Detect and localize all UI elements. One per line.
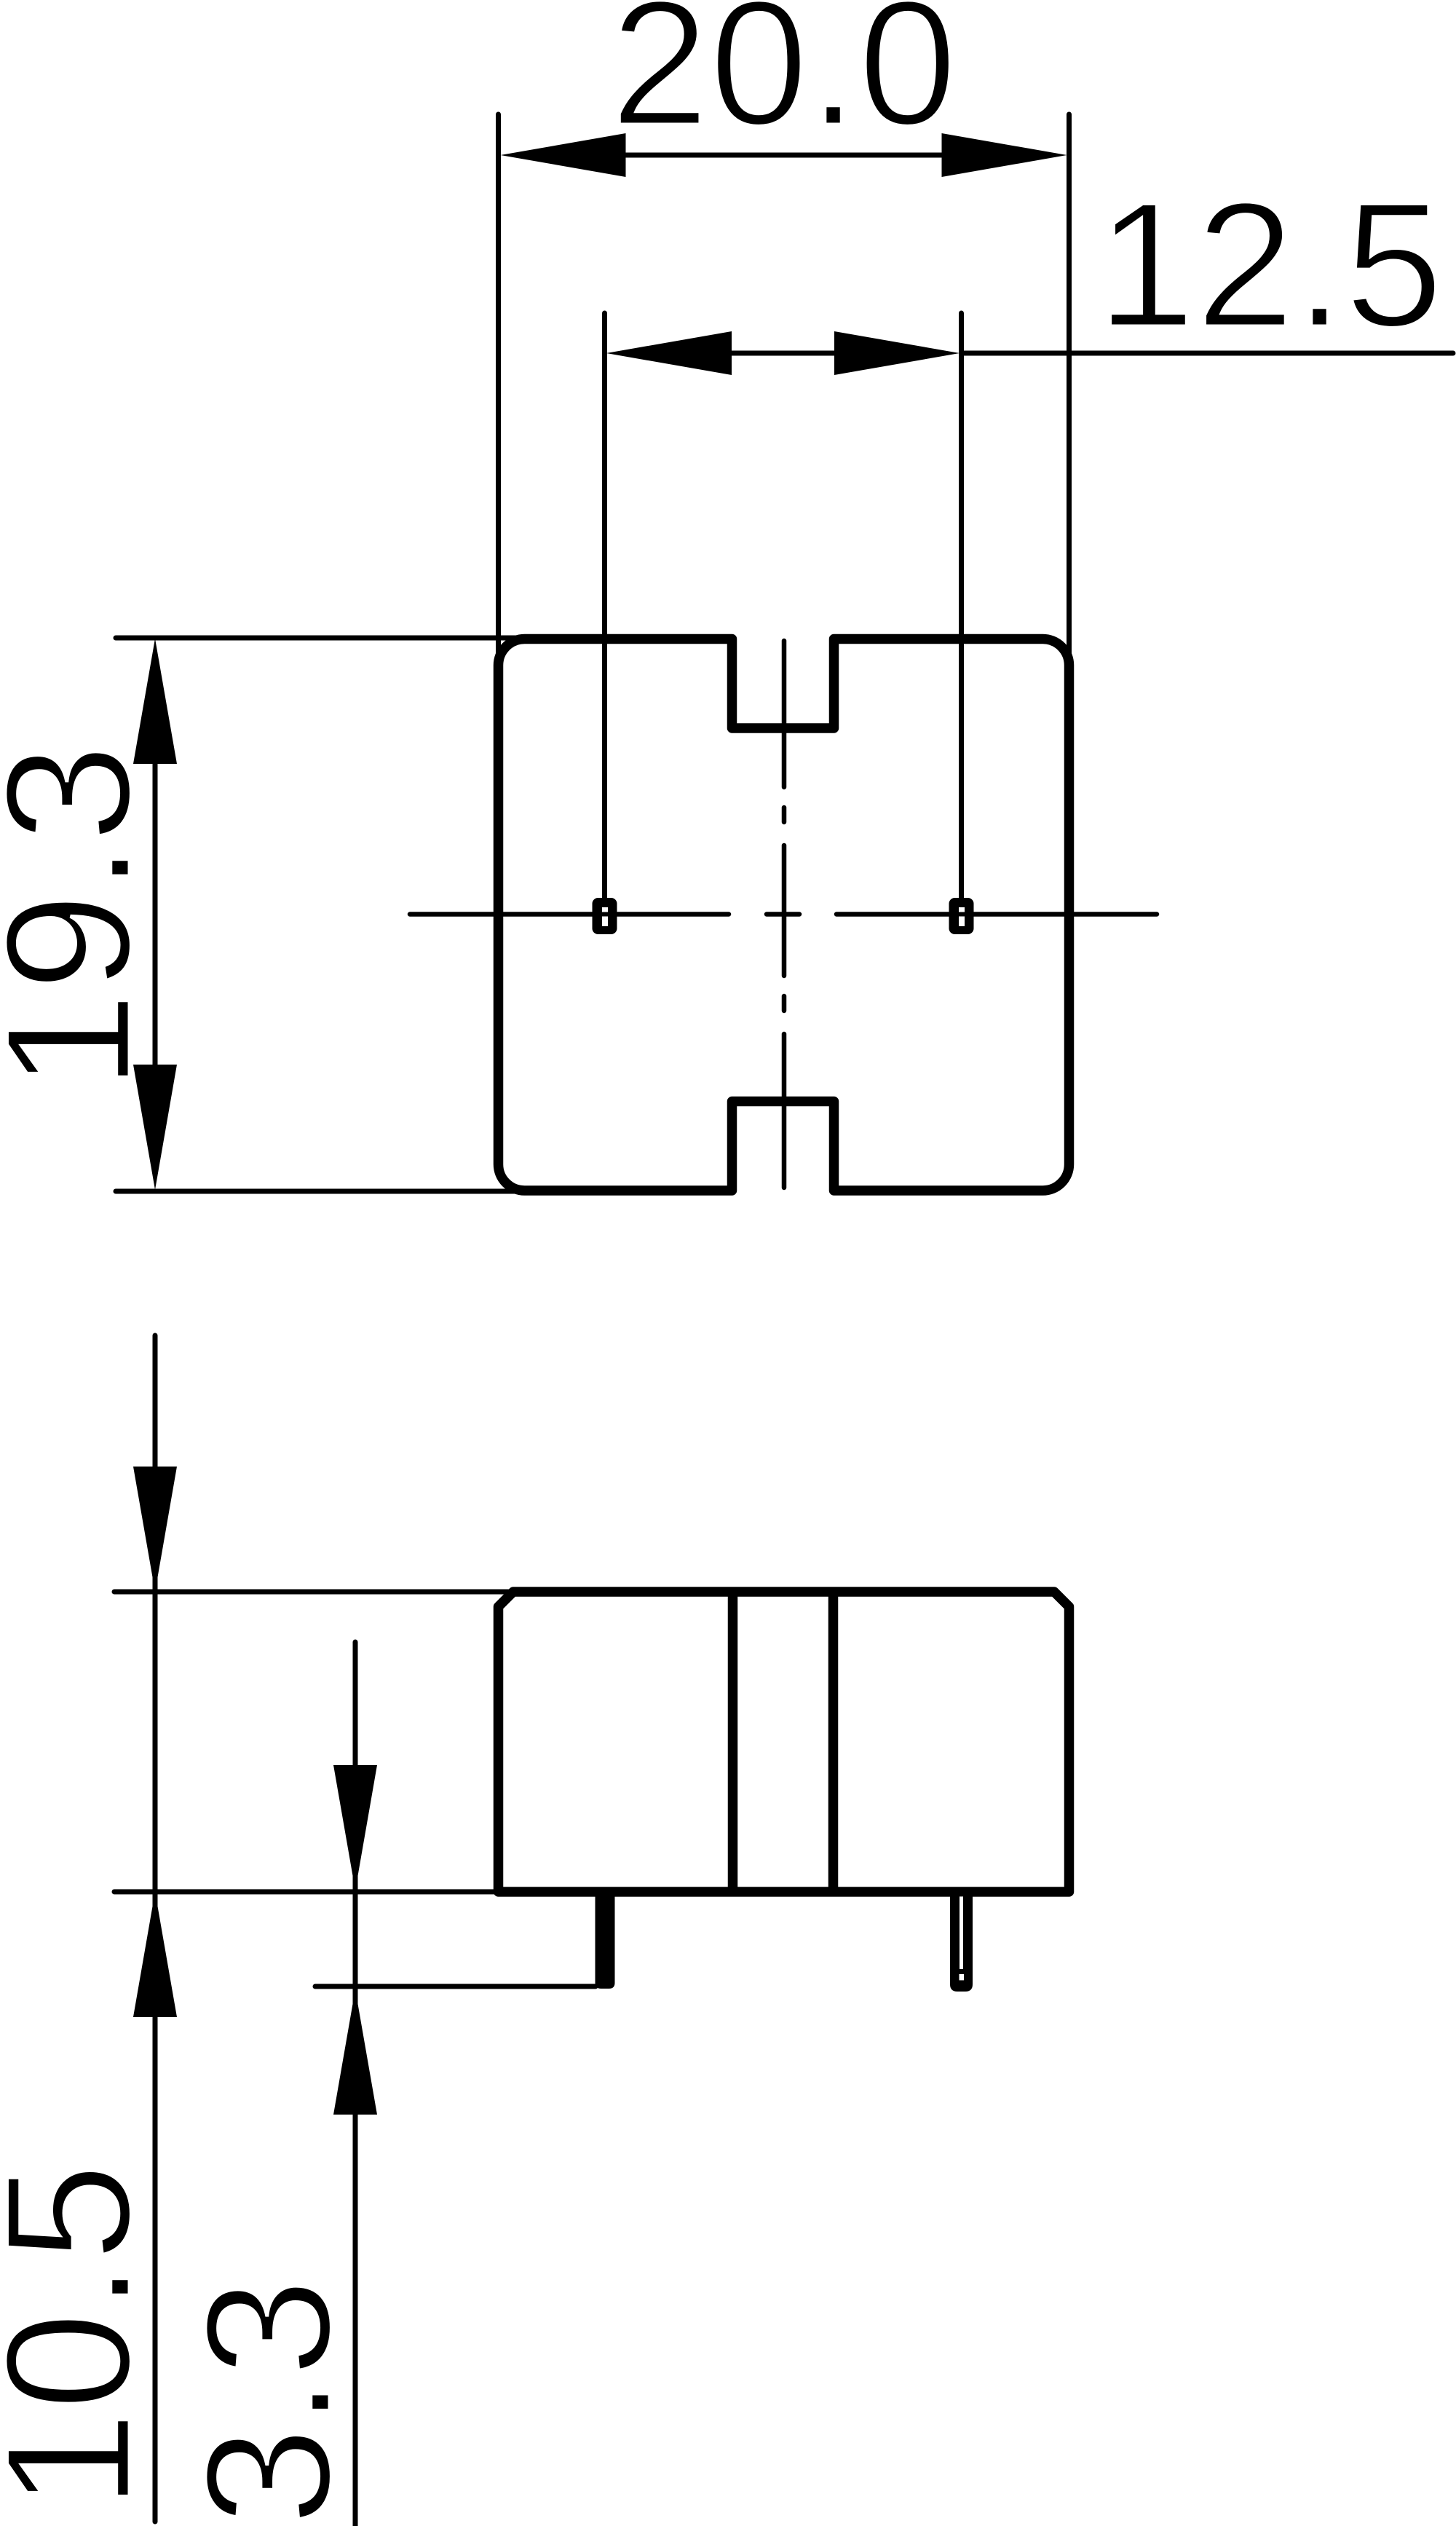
19.3 down arrowhead bbox=[133, 1065, 177, 1190]
top view right pin bbox=[949, 898, 974, 934]
side view right pin bbox=[950, 1892, 973, 1992]
10.5 top extension line bbox=[114, 1590, 510, 1595]
3.3 dimension line lower part bbox=[353, 1986, 358, 2526]
12.5 left arrowhead bbox=[606, 331, 732, 375]
top view body outline bbox=[499, 639, 1069, 1191]
10.5 lower (up) arrowhead bbox=[133, 1892, 177, 2017]
side view slot right edge bbox=[828, 1592, 839, 1892]
left 20.0 extension line bbox=[496, 114, 501, 681]
12.5 dimension leader to text bbox=[962, 351, 1454, 356]
20.0 left arrowhead bbox=[501, 133, 626, 177]
10.5 dimension line upper part bbox=[153, 1335, 158, 1892]
3.3 upper (down) arrowhead bbox=[333, 1765, 377, 1890]
19.3 dimension line bbox=[153, 762, 158, 1068]
top view vertical centerline bbox=[782, 641, 787, 1188]
20.0 right arrowhead bbox=[942, 133, 1067, 177]
side view left pin bbox=[596, 1892, 615, 1989]
top view horizontal centerline bbox=[410, 912, 1157, 917]
3.3 dimension line upper part bbox=[353, 1642, 358, 1986]
left 12.5 extension line bbox=[602, 313, 607, 898]
10.5 / 3.3 middle extension line bbox=[114, 1890, 502, 1895]
svg-text:20.0: 20.0 bbox=[610, 0, 957, 162]
12.5 dimension line bbox=[730, 351, 836, 356]
20.0 dimension line bbox=[625, 153, 944, 158]
12.5 right arrowhead bbox=[834, 331, 960, 375]
3.3 bottom extension line bbox=[315, 1984, 596, 1989]
svg-text:12.5: 12.5 bbox=[1096, 165, 1444, 364]
19.3 bottom extension line bbox=[116, 1189, 539, 1194]
svg-text:10.5: 10.5 bbox=[0, 2163, 167, 2510]
10.5 dimension line lower part bbox=[153, 1892, 158, 2522]
19.3 top extension line bbox=[116, 636, 539, 641]
3.3 lower (up) arrowhead bbox=[333, 1989, 377, 2115]
top view left pin bbox=[593, 898, 617, 934]
right 12.5 extension line bbox=[959, 313, 964, 898]
svg-text:19.3: 19.3 bbox=[0, 743, 167, 1091]
19.3 up arrowhead bbox=[133, 639, 177, 764]
svg-text:3.3: 3.3 bbox=[168, 2278, 368, 2526]
side view body outline bbox=[499, 1592, 1069, 1892]
10.5 upper (down) arrowhead bbox=[133, 1467, 177, 1592]
right 20.0 extension line bbox=[1067, 114, 1072, 681]
side view slot left edge bbox=[728, 1592, 738, 1892]
